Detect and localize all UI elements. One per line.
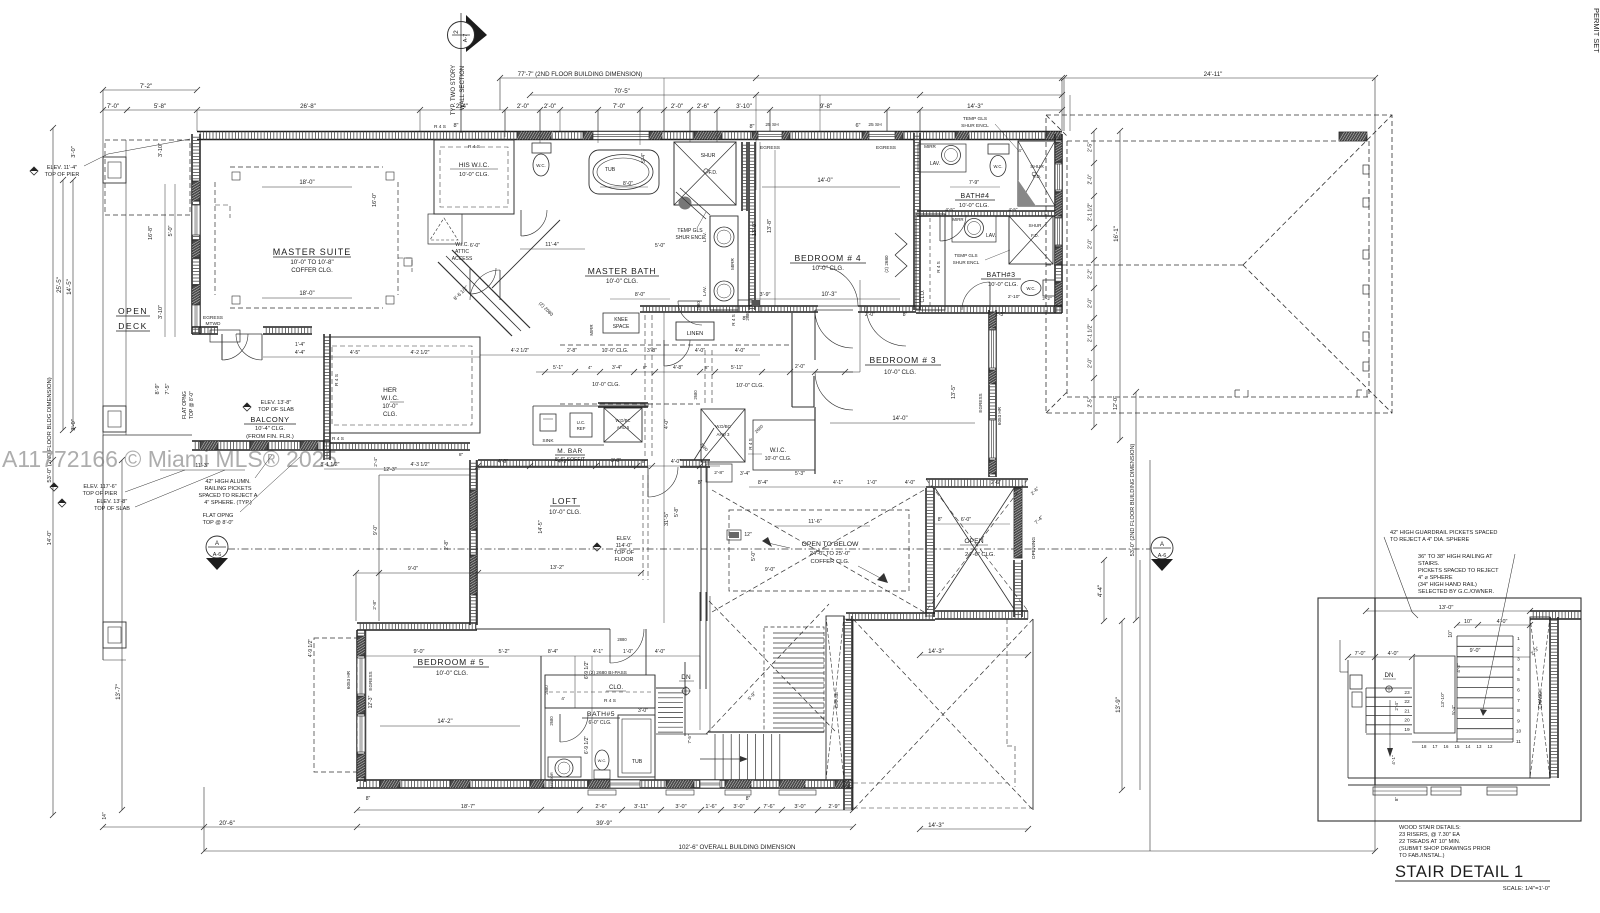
svg-text:5'-0": 5'-0"	[168, 225, 174, 236]
svg-text:7'-0": 7'-0"	[613, 103, 625, 110]
svg-text:BATH#4: BATH#4	[961, 193, 990, 200]
svg-text:8'-9": 8'-9"	[155, 383, 161, 394]
svg-text:(2) 2680 BI-PASS: (2) 2680 BI-PASS	[589, 670, 627, 676]
svg-text:W.C.: W.C.	[598, 758, 607, 763]
svg-text:2680: 2680	[693, 390, 698, 400]
svg-text:AHU 3: AHU 3	[717, 432, 730, 437]
svg-text:13'-9": 13'-9"	[1115, 697, 1122, 713]
svg-text:8": 8"	[749, 124, 754, 130]
svg-text:3'-0": 3'-0"	[794, 804, 805, 810]
svg-text:3'-0": 3'-0"	[71, 419, 77, 431]
svg-text:21: 21	[1404, 708, 1410, 714]
svg-text:4'-5": 4'-5"	[945, 207, 955, 212]
svg-text:STAIRS.: STAIRS.	[1418, 561, 1440, 567]
svg-text:9'-0": 9'-0"	[1470, 648, 1481, 654]
svg-text:3'-4": 3'-4"	[740, 471, 750, 477]
svg-text:W.D/BC: W.D/BC	[616, 418, 631, 423]
svg-text:4'-1": 4'-1"	[833, 480, 843, 486]
svg-text:77'-7" (2ND FLOOR BUILDING DIM: 77'-7" (2ND FLOOR BUILDING DIMENSION)	[518, 71, 643, 78]
svg-text:U.C.: U.C.	[577, 420, 586, 425]
svg-text:15: 15	[1455, 744, 1460, 749]
svg-text:TO REJECT A 4" DIA. SPHERE: TO REJECT A 4" DIA. SPHERE	[1390, 537, 1469, 543]
svg-text:CHASE: CHASE	[834, 692, 840, 709]
svg-text:9'-0": 9'-0"	[408, 566, 418, 572]
svg-text:7'-6": 7'-6"	[763, 804, 774, 810]
svg-text:13'-10": 13'-10"	[1440, 692, 1446, 707]
svg-text:4'-9 1/2": 4'-9 1/2"	[308, 639, 314, 658]
svg-text:8": 8"	[903, 312, 908, 318]
svg-text:10'-4" CLG.: 10'-4" CLG.	[255, 426, 285, 432]
svg-text:4'-1": 4'-1"	[1391, 755, 1397, 765]
svg-text:3'-10": 3'-10"	[158, 143, 164, 157]
svg-text:6'-0": 6'-0"	[961, 517, 971, 523]
svg-text:10'-0" CLG.: 10'-0" CLG.	[736, 383, 764, 389]
svg-text:5: 5	[1517, 677, 1520, 683]
svg-text:12: 12	[1488, 744, 1493, 749]
svg-text:M. BAR: M. BAR	[557, 448, 582, 455]
svg-text:2'-4": 2'-4"	[1394, 701, 1399, 711]
svg-text:16: 16	[1444, 744, 1449, 749]
svg-text:1'-0": 1'-0"	[623, 649, 633, 655]
svg-text:8": 8"	[366, 796, 371, 802]
svg-text:7: 7	[1517, 698, 1520, 704]
svg-text:2'-9": 2'-9"	[828, 804, 839, 810]
svg-text:102'-6" OVERALL BUILDING DIMEN: 102'-6" OVERALL BUILDING DIMENSION	[679, 844, 796, 851]
svg-text:10'-0" CLG.: 10'-0" CLG.	[959, 203, 989, 209]
svg-text:4'-8": 4'-8"	[673, 365, 683, 371]
svg-text:10'-0" CLG.: 10'-0" CLG.	[436, 670, 468, 677]
svg-text:14'-5": 14'-5"	[66, 279, 73, 295]
svg-text:3'-11": 3'-11"	[634, 804, 648, 810]
svg-text:14": 14"	[102, 812, 108, 820]
svg-text:BEDROOM # 4: BEDROOM # 4	[795, 253, 862, 263]
svg-text:(2) 2680: (2) 2680	[884, 255, 889, 273]
svg-text:TOP OF SLAB: TOP OF SLAB	[94, 506, 130, 512]
svg-text:2'-6": 2'-6"	[991, 480, 1001, 486]
svg-text:7'-5": 7'-5"	[687, 734, 692, 744]
svg-text:9'-0": 9'-0"	[765, 567, 775, 573]
svg-text:4'-0": 4'-0"	[671, 459, 681, 465]
svg-text:2'-0": 2'-0"	[1088, 358, 1094, 368]
svg-text:EGRESS: EGRESS	[876, 145, 896, 151]
svg-text:39'-9": 39'-9"	[596, 820, 612, 827]
svg-text:TOP @ 8'-0": TOP @ 8'-0"	[203, 520, 234, 526]
svg-text:F.D.: F.D.	[1031, 233, 1039, 238]
svg-text:9'-0": 9'-0"	[373, 525, 379, 535]
svg-text:1'-4": 1'-4"	[295, 342, 305, 348]
svg-text:(FROM FIN. FLR.): (FROM FIN. FLR.)	[246, 434, 294, 440]
svg-text:TOP OF PIER: TOP OF PIER	[83, 491, 118, 497]
svg-text:2680: 2680	[549, 716, 554, 726]
svg-text:MIRROR: MIRROR	[550, 772, 554, 788]
svg-text:SINK: SINK	[542, 438, 554, 444]
svg-text:MIRR: MIRR	[952, 217, 963, 222]
svg-text:4" SPHERE. (TYP.): 4" SPHERE. (TYP.)	[204, 500, 252, 506]
svg-text:OPENING: OPENING	[1031, 537, 1037, 559]
svg-text:R 4 S: R 4 S	[748, 438, 753, 450]
svg-text:TYP. TWO STORY: TYP. TWO STORY	[451, 65, 457, 115]
svg-text:4': 4'	[561, 696, 565, 702]
svg-text:13'-5": 13'-5"	[951, 385, 957, 399]
svg-text:4'-9": 4'-9"	[498, 459, 508, 465]
svg-text:TOP OF PIER: TOP OF PIER	[45, 172, 80, 178]
svg-text:5'-1": 5'-1"	[553, 365, 563, 371]
svg-text:W.D/BC: W.D/BC	[715, 424, 731, 429]
svg-text:8": 8"	[938, 517, 943, 523]
svg-text:KNEE: KNEE	[614, 317, 628, 323]
svg-text:BEDROOM # 3: BEDROOM # 3	[870, 355, 937, 365]
svg-text:F.D.: F.D.	[709, 170, 718, 176]
svg-text:LAV.: LAV.	[930, 161, 940, 167]
svg-text:2'-1 1/2": 2'-1 1/2"	[1088, 324, 1094, 343]
svg-text:BEDROOM # 5: BEDROOM # 5	[418, 657, 485, 667]
svg-text:2'-0": 2'-0"	[517, 103, 529, 110]
svg-text:14'-2": 14'-2"	[437, 719, 452, 725]
svg-text:4'-0": 4'-0"	[1388, 651, 1399, 657]
svg-text:2'-0": 2'-0"	[1088, 174, 1094, 184]
svg-text:RAILING PICKETS: RAILING PICKETS	[204, 486, 251, 492]
svg-text:R 4 S: R 4 S	[936, 261, 941, 273]
svg-text:18: 18	[1422, 744, 1427, 749]
svg-text:8": 8"	[746, 796, 751, 802]
svg-text:25'-5": 25'-5"	[56, 277, 63, 293]
svg-text:4'-2 1/2": 4'-2 1/2"	[411, 350, 430, 356]
svg-text:36" TO 38" HIGH RAILING AT: 36" TO 38" HIGH RAILING AT	[1418, 554, 1493, 560]
svg-text:2'-8": 2'-8"	[714, 470, 724, 476]
svg-text:CLO.: CLO.	[609, 685, 623, 691]
svg-text:18'-0": 18'-0"	[299, 291, 314, 297]
svg-text:LINEN: LINEN	[687, 331, 703, 337]
svg-text:4'-0": 4'-0"	[655, 649, 665, 655]
svg-text:BATH#5: BATH#5	[587, 711, 615, 718]
svg-text:4'-5": 4'-5"	[1009, 207, 1018, 212]
svg-text:2'-2": 2'-2"	[1042, 296, 1052, 301]
svg-text:25 SH: 25 SH	[765, 122, 779, 128]
svg-text:8'-0": 8'-0"	[635, 292, 645, 298]
svg-text:4'-4": 4'-4"	[1097, 585, 1104, 597]
svg-text:5'-0": 5'-0"	[655, 243, 665, 249]
svg-text:14'-0": 14'-0"	[892, 416, 907, 422]
svg-text:14'-3": 14'-3"	[928, 822, 944, 829]
svg-text:3: 3	[1517, 657, 1520, 663]
svg-text:42" HIGH ALUMN.: 42" HIGH ALUMN.	[205, 479, 251, 485]
svg-text:ELEV.: ELEV.	[616, 536, 632, 542]
svg-text:R 4 S: R 4 S	[468, 144, 480, 150]
svg-text:6": 6"	[855, 123, 860, 129]
svg-text:CHASE: CHASE	[1538, 691, 1544, 709]
svg-text:3'-9": 3'-9"	[760, 292, 771, 298]
svg-text:8: 8	[1517, 708, 1520, 714]
svg-text:5'-0": 5'-0"	[751, 551, 757, 561]
svg-text:13'-0": 13'-0"	[1439, 605, 1454, 611]
svg-text:10'-0" TO 10'-8": 10'-0" TO 10'-8"	[290, 259, 333, 266]
svg-text:7'-9": 7'-9"	[969, 180, 979, 186]
svg-text:2'-0": 2'-0"	[865, 312, 875, 318]
svg-text:SPACE: SPACE	[613, 324, 630, 330]
svg-text:1: 1	[1517, 636, 1520, 642]
svg-text:SHUR ENCL: SHUR ENCL	[676, 235, 705, 241]
svg-text:(34" HIGH HAND RAIL): (34" HIGH HAND RAIL)	[1418, 582, 1477, 588]
svg-text:8": 8"	[698, 480, 703, 486]
svg-text:MTWD: MTWD	[206, 321, 221, 327]
svg-text:13'-2": 13'-2"	[550, 565, 564, 571]
svg-text:W.C.: W.C.	[536, 163, 546, 168]
svg-text:10": 10"	[1464, 619, 1472, 625]
svg-text:20: 20	[1404, 718, 1410, 724]
svg-text:2680: 2680	[696, 301, 701, 311]
svg-text:3'-4": 3'-4"	[612, 365, 622, 371]
svg-text:7'-2": 7'-2"	[140, 83, 152, 90]
svg-text:F.D.: F.D.	[1033, 174, 1041, 179]
svg-text:MIRR: MIRR	[589, 324, 594, 335]
svg-text:11'-3": 11'-3"	[195, 463, 209, 469]
svg-text:8": 8"	[642, 459, 647, 465]
svg-text:42" HIGH GUARDRAIL PICKETS SPA: 42" HIGH GUARDRAIL PICKETS SPACED	[1390, 530, 1497, 536]
svg-text:2'-4": 2'-4"	[373, 457, 379, 467]
svg-text:BATH#3: BATH#3	[987, 272, 1016, 279]
svg-text:PICKETS SPACED TO REJECT: PICKETS SPACED TO REJECT	[1418, 568, 1499, 574]
svg-text:HIS W.I.C.: HIS W.I.C.	[459, 162, 490, 169]
svg-text:16'-8": 16'-8"	[148, 226, 154, 240]
svg-text:3'-10": 3'-10"	[158, 305, 164, 319]
svg-text:6'-9 1/2": 6'-9 1/2"	[584, 661, 590, 680]
svg-text:10'-0" CLG.: 10'-0" CLG.	[602, 348, 629, 354]
svg-text:5'-3": 5'-3"	[795, 471, 805, 477]
svg-text:TEMP GLS: TEMP GLS	[677, 228, 703, 234]
svg-text:26'-8": 26'-8"	[300, 103, 316, 110]
svg-text:10'-0" CLG.: 10'-0" CLG.	[606, 278, 638, 285]
svg-text:3'-8": 3'-8"	[611, 458, 621, 464]
svg-text:TUB: TUB	[605, 167, 616, 173]
svg-text:3'-0": 3'-0"	[675, 804, 686, 810]
svg-text:AHU 5: AHU 5	[617, 425, 630, 430]
svg-text:4'-0": 4'-0"	[1497, 619, 1508, 625]
svg-text:FLAT OPNG: FLAT OPNG	[182, 391, 188, 419]
svg-text:14'-0": 14'-0"	[817, 178, 832, 184]
svg-text:14: 14	[1466, 744, 1471, 749]
svg-text:6: 6	[1517, 688, 1520, 694]
svg-text:5'-8": 5'-8"	[154, 103, 166, 110]
svg-text:11'-4": 11'-4"	[545, 242, 559, 248]
svg-text:TEMP GLS: TEMP GLS	[963, 116, 987, 122]
svg-text:5'-4": 5'-4"	[641, 153, 647, 163]
svg-text:9'-8": 9'-8"	[820, 103, 832, 110]
svg-text:2680: 2680	[745, 311, 750, 321]
svg-text:A: A	[215, 541, 219, 547]
svg-text:1'-6": 1'-6"	[705, 804, 716, 810]
svg-text:23: 23	[1404, 690, 1410, 696]
svg-text:2'-2": 2'-2"	[1088, 269, 1094, 279]
svg-text:3'-8": 3'-8"	[647, 348, 657, 354]
svg-text:2: 2	[1517, 646, 1520, 652]
svg-text:W.I.C.: W.I.C.	[381, 395, 399, 402]
svg-text:12": 12"	[744, 532, 752, 538]
svg-text:LAV.: LAV.	[986, 233, 996, 239]
svg-text:14'-5": 14'-5"	[538, 520, 544, 533]
svg-text:8": 8"	[1394, 797, 1399, 802]
svg-text:2'-6": 2'-6"	[595, 804, 606, 810]
svg-text:10'-3": 10'-3"	[821, 292, 836, 298]
svg-text:4'-0": 4'-0"	[735, 348, 745, 354]
svg-text:SHUR: SHUR	[701, 153, 716, 159]
svg-text:4': 4'	[1018, 148, 1022, 153]
svg-text:53'-0" (2ND FLOOR BUILDING DIM: 53'-0" (2ND FLOOR BUILDING DIMENSION)	[1130, 443, 1136, 556]
svg-text:TOP OF: TOP OF	[614, 550, 635, 556]
svg-text:TOP @ 8'-0": TOP @ 8'-0"	[189, 391, 195, 419]
svg-text:2'-3": 2'-3"	[995, 312, 1005, 318]
svg-text:W.C.: W.C.	[1026, 286, 1035, 291]
svg-text:ELEV. 13'-8": ELEV. 13'-8"	[97, 499, 128, 505]
svg-text:16'-1": 16'-1"	[1113, 226, 1120, 242]
svg-text:8'-0": 8'-0"	[623, 181, 633, 187]
svg-text:(SUBMIT SHOP DRAWINGS PRIOR: (SUBMIT SHOP DRAWINGS PRIOR	[1399, 846, 1491, 852]
svg-text:6'-9 1/2": 6'-9 1/2"	[584, 736, 590, 755]
svg-text:DN: DN	[681, 674, 691, 681]
svg-text:CLG.: CLG.	[383, 412, 397, 418]
svg-text:MIRR: MIRR	[924, 144, 936, 149]
svg-text:23 RISERS, @ 7.30" EA: 23 RISERS, @ 7.30" EA	[1399, 832, 1460, 838]
svg-text:31'-5": 31'-5"	[664, 512, 670, 526]
svg-text:A-6: A-6	[1158, 553, 1167, 559]
svg-text:BALCONY: BALCONY	[250, 415, 289, 424]
svg-text:2'-8": 2'-8"	[567, 348, 577, 354]
svg-text:11: 11	[1516, 739, 1521, 745]
svg-text:3'-0": 3'-0"	[71, 146, 77, 158]
svg-text:8": 8"	[459, 452, 464, 458]
svg-text:7'-5": 7'-5"	[165, 383, 171, 394]
svg-text:COFFER CLG.: COFFER CLG.	[811, 559, 850, 565]
svg-text:25 SH: 25 SH	[868, 122, 882, 128]
svg-text:10'-0" CLG.: 10'-0" CLG.	[459, 172, 489, 178]
svg-text:24'-6" CLG.: 24'-6" CLG.	[965, 552, 995, 558]
svg-text:ELEV. 117'-6": ELEV. 117'-6"	[83, 484, 116, 490]
svg-text:COFFER CLG.: COFFER CLG.	[291, 267, 333, 274]
svg-text:19: 19	[1404, 727, 1410, 733]
svg-text:12'-3": 12'-3"	[383, 467, 396, 473]
svg-text:TUB: TUB	[632, 759, 643, 765]
svg-text:3'-10": 3'-10"	[736, 103, 752, 110]
svg-text:6053 HR: 6053 HR	[997, 406, 1002, 425]
svg-text:SHUR: SHUR	[1030, 164, 1044, 170]
svg-text:LAV.: LAV.	[702, 286, 708, 296]
svg-text:3'-0": 3'-0"	[638, 708, 648, 714]
svg-text:EGRESS: EGRESS	[978, 393, 983, 412]
svg-text:EGRESS: EGRESS	[760, 145, 780, 151]
svg-text:1'-0": 1'-0"	[867, 480, 877, 486]
svg-text:4'-1": 4'-1"	[593, 649, 603, 655]
svg-text:2'-5": 2'-5"	[1088, 397, 1094, 407]
svg-text:DECK: DECK	[118, 321, 148, 331]
svg-text:A: A	[1160, 542, 1164, 548]
svg-text:17: 17	[1433, 744, 1438, 749]
svg-text:18'-7": 18'-7"	[461, 804, 475, 810]
svg-text:2'-10": 2'-10"	[1008, 294, 1021, 300]
svg-text:SPACED TO REJECT A: SPACED TO REJECT A	[199, 493, 258, 499]
svg-text:7'-0": 7'-0"	[1355, 651, 1366, 657]
svg-text:SHUR ENCL: SHUR ENCL	[953, 260, 980, 265]
svg-text:10'-0" CLG.: 10'-0" CLG.	[884, 369, 916, 376]
svg-text:4" ⌀ SPHERE: 4" ⌀ SPHERE	[1418, 575, 1453, 581]
svg-text:70'-5": 70'-5"	[614, 88, 630, 95]
svg-text:MIRR: MIRR	[730, 257, 735, 269]
svg-text:2'-0": 2'-0"	[1088, 298, 1094, 308]
svg-text:4'-0": 4'-0"	[695, 348, 705, 354]
svg-text:REF: REF	[577, 426, 586, 431]
svg-text:12'-0": 12'-0"	[1113, 396, 1119, 410]
svg-text:4'-9": 4'-9"	[558, 459, 568, 465]
svg-text:TEMP GLS: TEMP GLS	[954, 253, 977, 258]
svg-text:2'-6": 2'-6"	[697, 103, 709, 110]
svg-text:5'-11": 5'-11"	[731, 365, 744, 371]
svg-text:SHUR ENCL: SHUR ENCL	[961, 123, 989, 129]
svg-text:2880: 2880	[617, 637, 627, 642]
svg-text:10": 10"	[1448, 630, 1454, 638]
svg-text:9: 9	[1517, 718, 1520, 724]
svg-text:W.C.: W.C.	[993, 164, 1002, 169]
svg-text:MASTER BATH: MASTER BATH	[588, 266, 657, 276]
svg-text:114'-0": 114'-0"	[616, 543, 633, 549]
svg-text:7'-0": 7'-0"	[107, 103, 119, 110]
svg-text:2: 2	[453, 30, 460, 34]
svg-text:W.I.C.: W.I.C.	[770, 448, 787, 454]
svg-text:22: 22	[1404, 699, 1410, 705]
svg-text:6053 HR: 6053 HR	[346, 670, 351, 689]
svg-text:EGRESS: EGRESS	[203, 315, 223, 321]
svg-text:4: 4	[1517, 667, 1520, 673]
svg-text:6'-0": 6'-0"	[470, 243, 480, 249]
svg-text:CLO.: CLO.	[920, 289, 926, 303]
svg-text:14'-0": 14'-0"	[47, 531, 53, 546]
svg-text:SCALE: 1/4"=1'-0": SCALE: 1/4"=1'-0"	[1503, 886, 1550, 892]
svg-text:10'-0" CLG.: 10'-0" CLG.	[765, 456, 792, 462]
svg-text:2'-1 1/2": 2'-1 1/2"	[1088, 203, 1094, 222]
svg-text:9'-0": 9'-0"	[414, 649, 425, 655]
svg-text:2'-0": 2'-0"	[671, 103, 683, 110]
svg-text:R 4 S: R 4 S	[731, 314, 736, 326]
svg-text:13'-8": 13'-8"	[767, 219, 773, 233]
svg-text:ELEV. 13'-8": ELEV. 13'-8"	[261, 400, 292, 406]
svg-text:10: 10	[1516, 729, 1522, 735]
svg-text:2'-0": 2'-0"	[1088, 239, 1094, 249]
svg-text:18'-0": 18'-0"	[299, 180, 314, 186]
svg-text:14'-3": 14'-3"	[928, 648, 944, 655]
svg-text:4'-3 1/2": 4'-3 1/2"	[411, 462, 430, 468]
svg-text:EGRESS: EGRESS	[368, 671, 373, 690]
svg-text:8'-4": 8'-4"	[758, 480, 768, 486]
svg-text:FLOOR: FLOOR	[615, 557, 634, 563]
svg-text:WOOD STAIR DETAILS:: WOOD STAIR DETAILS:	[1399, 825, 1461, 831]
svg-text:OPEN: OPEN	[964, 538, 983, 545]
svg-text:LOFT: LOFT	[552, 496, 578, 506]
svg-text:DN: DN	[1385, 672, 1394, 679]
svg-text:4'-2": 4'-2"	[1456, 663, 1462, 673]
svg-text:PERMIT SET: PERMIT SET	[1592, 8, 1600, 53]
svg-text:2'-8": 2'-8"	[444, 540, 450, 550]
svg-text:13: 13	[1477, 744, 1482, 749]
svg-text:TO FAB./INSTAL.): TO FAB./INSTAL.)	[1399, 853, 1445, 859]
svg-text:2'-0": 2'-0"	[795, 364, 805, 370]
svg-text:11'-6": 11'-6"	[808, 519, 822, 525]
svg-text:8": 8"	[705, 365, 710, 370]
svg-text:HER: HER	[383, 387, 397, 394]
svg-text:ELEV. 11'-4": ELEV. 11'-4"	[47, 165, 77, 171]
svg-text:10'-0": 10'-0"	[382, 404, 397, 410]
svg-text:4'-2 1/2": 4'-2 1/2"	[511, 348, 530, 354]
svg-text:4'-5": 4'-5"	[350, 350, 360, 356]
svg-text:OPEN TO BELOW: OPEN TO BELOW	[802, 541, 859, 548]
svg-text:SELECTED BY G.C./OWNER.: SELECTED BY G.C./OWNER.	[1418, 589, 1494, 595]
svg-text:3'-0": 3'-0"	[733, 804, 744, 810]
